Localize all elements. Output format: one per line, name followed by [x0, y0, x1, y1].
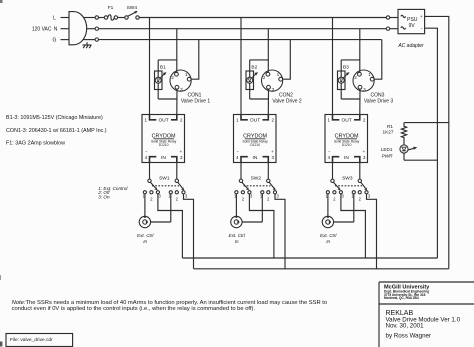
wire lamp bottom branch ch3: [341, 98, 360, 100]
SW1 contact B1: [169, 191, 172, 194]
pin circle G: [95, 38, 98, 41]
SW3 contact A1: [326, 191, 329, 194]
pin circle at PSU N input: [386, 27, 389, 30]
wire SSR pin4 to switch ch1: [149, 163, 151, 180]
indicator lamp B3 body: [338, 71, 346, 90]
plug pin stub N: [61, 28, 70, 30]
SW1 pole A lever: [150, 182, 155, 188]
svg-text:Valve Drive 2: Valve Drive 2: [272, 98, 302, 104]
plug pin stub L: [61, 17, 70, 19]
connector Ext Ctrl In 3: [322, 216, 333, 227]
CON1 pin 1: [187, 77, 191, 81]
svg-text:Ext. Ctrl: Ext. Ctrl: [320, 233, 337, 238]
wire N drop ch2: [267, 29, 269, 73]
junction dot: [144, 216, 146, 218]
svg-text:SW3: SW3: [342, 176, 353, 182]
indicator lamp B2 body: [246, 71, 254, 90]
SW3 pole A lever: [333, 182, 338, 188]
wire N drop ch1: [176, 29, 178, 73]
SW1 contact A1: [143, 191, 146, 194]
wire SSR pin3 to switch ch3: [359, 163, 361, 180]
CON3 pin 2: [358, 72, 362, 76]
svg-text:PWR: PWR: [382, 153, 394, 158]
svg-text:Montreal, QC, H3A 2B4: Montreal, QC, H3A 2B4: [384, 296, 419, 300]
junction dot: [327, 216, 329, 218]
wire to contact B1 ch2: [261, 194, 263, 222]
wire SSR pin4 to switch ch3: [332, 163, 334, 180]
svg-text:R1: R1: [387, 124, 393, 129]
SW3 gang dashed link: [335, 185, 362, 187]
svg-text:by Ross Wagner: by Ross Wagner: [386, 333, 432, 340]
wire N bus to PSU: [99, 28, 387, 30]
wire L bus to PSU: [139, 17, 386, 19]
wire CON2 pin3 down to SSR: [267, 89, 269, 114]
wire lamp top branch ch2: [250, 59, 269, 61]
wire ext connector shell ch3: [333, 221, 354, 223]
CON1 pin 2: [175, 72, 179, 76]
SW2 pole A lever: [242, 182, 247, 188]
LED LED1: [400, 145, 408, 153]
wire PSU - output: [425, 28, 438, 258]
junction dot: [235, 216, 237, 218]
svg-text:+: +: [420, 14, 423, 19]
CON2 pin 2: [266, 72, 270, 76]
pin circle N: [95, 27, 98, 30]
power supply PSU: [398, 9, 425, 33]
solid state relay SSR1: [142, 115, 185, 163]
svg-text:D1210: D1210: [159, 143, 169, 147]
wire: [99, 17, 105, 19]
plug pin stub G: [61, 39, 70, 41]
svg-text:F1: F1: [108, 5, 114, 11]
SW2 contact A3: [248, 191, 251, 194]
SW2 pole B lever: [269, 182, 274, 188]
wire lamp bottom branch ch2: [250, 98, 269, 100]
wire lamp top lead ch2: [249, 60, 251, 71]
CON2 pin 3: [267, 85, 271, 89]
wire SSR pin3 to switch ch2: [267, 163, 269, 180]
lamp B2 symbol: [249, 71, 251, 77]
wire switched-L drop ch3: [332, 18, 334, 115]
SW1 pole A: [148, 179, 151, 182]
svg-text:CON1-3: 206430-1 w/ 66181-1 (A: CON1-3: 206430-1 w/ 66181-1 (AMP Inc.): [6, 128, 107, 134]
wire SSR pin3 to switch ch1: [176, 163, 178, 180]
svg-text:LED1: LED1: [381, 147, 393, 152]
svg-text:G: G: [53, 38, 57, 44]
wire contact A1 to ext connector ch2: [235, 194, 237, 217]
svg-text:IN: IN: [161, 155, 166, 161]
svg-text:N: N: [54, 27, 58, 33]
SW1 contact A3: [156, 191, 159, 194]
SW1 pole B lever: [178, 182, 183, 188]
svg-text:OUT: OUT: [159, 118, 169, 124]
wire lamp top lead ch1: [157, 60, 159, 71]
SW2 gang dashed link: [244, 185, 271, 187]
wire ext connector shell ch1: [150, 221, 171, 223]
solid state relay SSR2: [234, 115, 277, 163]
svg-text:+: +: [271, 149, 274, 154]
svg-text:Ext. Ctrl: Ext. Ctrl: [229, 233, 246, 238]
wire N from plug: [87, 28, 96, 30]
SW3 contact A3: [339, 191, 342, 194]
SW3 contact B2: [358, 191, 361, 194]
CON3 pin 3: [358, 85, 362, 89]
wire contact A1 to ext connector ch1: [144, 194, 146, 217]
scan mark left edge: [0, 275, 1, 280]
wire ext connector shell ch2: [242, 221, 263, 223]
SW2 contact B1: [261, 191, 264, 194]
svg-text:1K27: 1K27: [383, 130, 394, 135]
svg-text:IN: IN: [252, 155, 257, 161]
SW2 contact B3: [273, 191, 276, 194]
wire lamp bottom lead ch1: [157, 83, 159, 99]
svg-text:PSU: PSU: [407, 17, 418, 23]
wire lamp bottom lead ch2: [249, 83, 251, 99]
lamp B3 symbol: [340, 71, 342, 77]
CRYDOM underline: [245, 138, 266, 140]
LED arrow head: [413, 147, 417, 150]
AC plug P1 (120 VAC inlet): [69, 12, 87, 45]
fuse F1: [104, 16, 107, 19]
wire PSU + output: [425, 16, 449, 268]
scan mark bottom left: [0, 342, 2, 347]
SW1 contact B2: [175, 191, 178, 194]
svg-text:In: In: [235, 239, 239, 244]
svg-text:B2: B2: [251, 64, 257, 70]
scan mark top left: [0, 0, 3, 3]
CON1 pin 3: [175, 85, 179, 89]
SW1 pole B: [175, 179, 178, 182]
CON3 pin 1: [370, 77, 374, 81]
SSR IN pin traces: [150, 157, 157, 163]
wire CON3 pin3 down to SSR: [359, 89, 361, 114]
SSR IN pin traces: [241, 157, 248, 163]
svg-text:120 VAC: 120 VAC: [32, 27, 52, 33]
SW1 contact A2: [150, 191, 153, 194]
svg-text:F1: 3AG 2Amp slowblow: F1: 3AG 2Amp slowblow: [6, 141, 65, 147]
connector CON2 circle: [262, 70, 283, 91]
svg-text:L: L: [53, 15, 56, 21]
wire SW2 contact B3 to + rail: [275, 194, 285, 269]
switch SW4: [125, 16, 128, 19]
svg-text:9V: 9V: [409, 23, 416, 29]
SW2 pole A: [239, 179, 242, 182]
SSR IN pin traces: [333, 157, 340, 163]
lamp B1 symbol: [157, 71, 159, 77]
wire SW1 contact B3 to + rail: [184, 194, 194, 269]
wire CON1 pin3 down to SSR: [176, 89, 178, 114]
SW3 pole A: [331, 179, 334, 182]
SSR OUT pin traces: [333, 115, 340, 120]
wire G from plug: [84, 39, 96, 41]
wire G bus: [99, 39, 382, 41]
wire SW3 contact A3 to - rail: [341, 194, 366, 258]
SW1 contact B3: [182, 191, 185, 194]
file name box: [6, 334, 73, 347]
CON2 pin 1: [279, 77, 283, 81]
wire SSR pin4 to switch ch2: [240, 163, 242, 180]
wire CON1 pin1 to ground bus: [191, 40, 199, 80]
wire N drop ch3: [359, 29, 361, 73]
svg-text:-: -: [421, 26, 423, 32]
wire switched-L drop ch1: [149, 18, 151, 115]
wire: [118, 17, 125, 19]
PSU AC input symbol 1: [401, 15, 406, 17]
wire to contact B1 ch1: [170, 194, 172, 222]
wire SW2 contact A3 to - rail: [249, 194, 274, 258]
SW2 contact A2: [241, 191, 244, 194]
pin circle L: [95, 16, 98, 19]
svg-text:SW2: SW2: [251, 176, 262, 182]
svg-text:B3: B3: [343, 64, 349, 70]
wire: [390, 28, 398, 30]
SW3 contact B1: [352, 191, 355, 194]
svg-text:Valve Drive 1: Valve Drive 1: [181, 98, 211, 104]
wire: [390, 17, 398, 19]
connector Ext Ctrl In 1: [139, 216, 150, 227]
svg-text:3: On: 3: On: [98, 194, 110, 199]
solid state relay SSR3: [325, 115, 368, 163]
svg-text:OUT: OUT: [250, 118, 260, 124]
svg-text:OUT: OUT: [342, 118, 352, 124]
svg-text:+: +: [180, 149, 183, 154]
wire CON3 pin1 to ground bus: [374, 40, 382, 80]
svg-text:IN: IN: [344, 155, 349, 161]
wire to contact B1 ch3: [353, 194, 355, 222]
svg-text:B1-3: 1091M5-125V (Chicago Min: B1-3: 1091M5-125V (Chicago Miniature): [6, 115, 103, 121]
wire LED to - rail: [404, 159, 437, 161]
svg-text:+: +: [363, 149, 366, 154]
wire lamp bottom branch ch1: [158, 98, 177, 100]
connector Ext Ctrl In 2: [231, 216, 242, 227]
CRYDOM underline: [153, 138, 174, 140]
wire contact A1 to ext connector ch3: [327, 194, 329, 217]
svg-text:Nov. 30, 2001: Nov. 30, 2001: [386, 323, 425, 330]
svg-text:In: In: [143, 239, 147, 244]
wire switched-L drop ch2: [240, 18, 242, 115]
svg-text:SW1: SW1: [159, 176, 170, 182]
SW3 contact B3: [365, 191, 368, 194]
resistor R1: [401, 123, 406, 146]
svg-text:SW4: SW4: [127, 5, 138, 11]
CRYDOM underline: [336, 138, 357, 140]
wire CON2 pin1 to ground bus: [283, 40, 291, 80]
ground symbol below plug: [86, 42, 88, 45]
title block: [379, 281, 474, 283]
PSU AC input symbol 2: [401, 27, 406, 29]
wire - rail: [182, 257, 437, 259]
wire + rail: [194, 268, 449, 270]
svg-text:D1210: D1210: [342, 143, 352, 147]
pin circle at PSU L input: [386, 16, 389, 19]
svg-text:File: valve_drive.cdr: File: valve_drive.cdr: [10, 337, 53, 343]
wire LED bottom: [403, 153, 405, 160]
SW1 gang dashed link: [152, 185, 179, 187]
wire SW3 contact B3 to + rail: [367, 194, 377, 269]
SW2 contact B2: [267, 191, 270, 194]
SW2 contact A1: [235, 191, 238, 194]
indicator lamp B1 body: [155, 71, 163, 90]
LED arrow line: [408, 148, 414, 150]
SW3 pole B: [358, 179, 361, 182]
SSR OUT pin traces: [150, 115, 157, 120]
svg-text:Valve Drive 3: Valve Drive 3: [364, 98, 394, 104]
svg-text:B1: B1: [160, 64, 166, 70]
SW3 contact A2: [333, 191, 336, 194]
wire lamp top branch ch3: [341, 59, 360, 61]
SSR OUT pin traces: [241, 115, 248, 120]
SW2 pole B: [267, 179, 270, 182]
svg-text:conduct even if 0V is applied: conduct even if 0V is applied to the con…: [12, 306, 256, 312]
connector center pin dot: [329, 221, 331, 223]
wire lamp top branch ch1: [158, 59, 177, 61]
wire lamp top lead ch3: [340, 60, 342, 71]
wire lamp bottom lead ch3: [340, 83, 342, 99]
connector center pin dot: [237, 221, 239, 223]
connector CON3 circle: [353, 70, 374, 91]
svg-text:Ext. Ctrl: Ext. Ctrl: [137, 233, 154, 238]
svg-text:D1210: D1210: [250, 143, 260, 147]
connector center pin dot: [146, 221, 148, 223]
svg-text:AC adapter: AC adapter: [397, 43, 424, 49]
wire L from plug: [84, 17, 96, 19]
wire R1 top to + rail: [404, 122, 449, 124]
connector CON1 circle: [170, 70, 191, 91]
svg-text:In: In: [326, 239, 330, 244]
wire SW1 contact A3 to - rail: [158, 194, 183, 258]
SW3 pole B lever: [361, 182, 366, 188]
